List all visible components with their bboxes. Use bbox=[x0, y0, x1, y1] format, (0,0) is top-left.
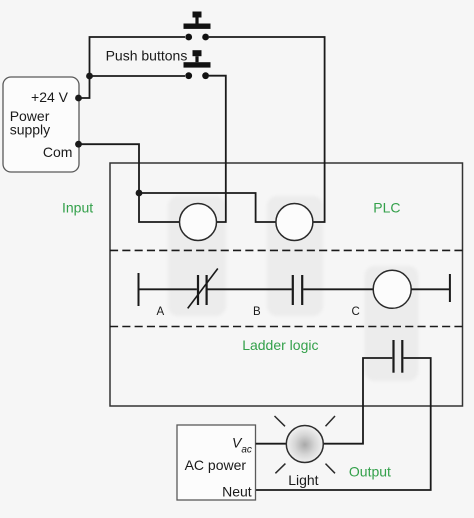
svg-text:Ladder logic: Ladder logic bbox=[242, 337, 318, 353]
push button PB1 bbox=[184, 12, 211, 41]
push button PB2 bbox=[184, 50, 211, 79]
input indicator circle 2 bbox=[276, 204, 313, 241]
svg-text:Output: Output bbox=[349, 464, 391, 480]
wire Com down to junction bbox=[79, 144, 139, 193]
svg-text:+24 V: +24 V bbox=[31, 89, 69, 105]
PLC box bbox=[110, 163, 463, 406]
svg-text:Neut: Neut bbox=[222, 484, 252, 500]
highlight pad input1/contactA bbox=[168, 196, 226, 316]
wire junction to input circle 1 left bbox=[139, 193, 180, 222]
light bulb bbox=[286, 426, 323, 463]
svg-text:supply: supply bbox=[10, 121, 50, 137]
node com junction bbox=[136, 190, 143, 197]
wire Vac to light bbox=[256, 443, 287, 445]
node +24V terminal bbox=[75, 95, 82, 102]
wire junction to input circle 2 left bbox=[139, 193, 276, 222]
wire PB2 right down to input circle 1 bbox=[209, 76, 226, 222]
svg-text:PLC: PLC bbox=[373, 199, 400, 215]
wire +24V to push button 1 bbox=[79, 37, 185, 98]
node junction button2 wire bbox=[86, 73, 93, 80]
dashed separator logic/output bbox=[110, 326, 463, 328]
svg-text:Light: Light bbox=[288, 472, 318, 488]
svg-text:Input: Input bbox=[62, 199, 93, 215]
input indicator circle 1 bbox=[180, 204, 217, 241]
AC power box bbox=[177, 425, 256, 500]
svg-text:A: A bbox=[157, 306, 165, 318]
svg-text:Push buttons: Push buttons bbox=[106, 48, 188, 64]
wire output contact left to light bbox=[323, 358, 392, 444]
power supply box bbox=[3, 77, 79, 172]
wire junction to push button 2 bbox=[90, 75, 186, 77]
svg-text:Com: Com bbox=[43, 144, 73, 160]
wire PB1 right down to input circle 2 bbox=[209, 37, 325, 222]
dashed separator input/logic bbox=[110, 249, 463, 251]
wire contact A to contact B bbox=[208, 288, 292, 290]
highlight pad input2/contactB bbox=[267, 196, 323, 316]
svg-text:B: B bbox=[253, 306, 261, 318]
contact A (NC) bbox=[188, 269, 218, 309]
coil C bbox=[373, 270, 411, 308]
node Com terminal bbox=[75, 141, 82, 148]
svg-text:C: C bbox=[352, 306, 360, 318]
ladder right rail bbox=[449, 274, 451, 302]
wire contact B to coil C bbox=[303, 288, 373, 290]
light rays bbox=[275, 416, 336, 473]
highlight pad coilC/output contact bbox=[365, 266, 419, 381]
output contact C bbox=[394, 340, 403, 373]
wire output contact right to neutral bbox=[256, 358, 431, 490]
svg-text:AC power: AC power bbox=[185, 457, 247, 473]
contact B (NO) bbox=[293, 275, 302, 305]
wire coil C to right rail bbox=[411, 288, 450, 290]
wire rail to contact A bbox=[139, 288, 197, 290]
ladder left rail bbox=[138, 273, 140, 306]
